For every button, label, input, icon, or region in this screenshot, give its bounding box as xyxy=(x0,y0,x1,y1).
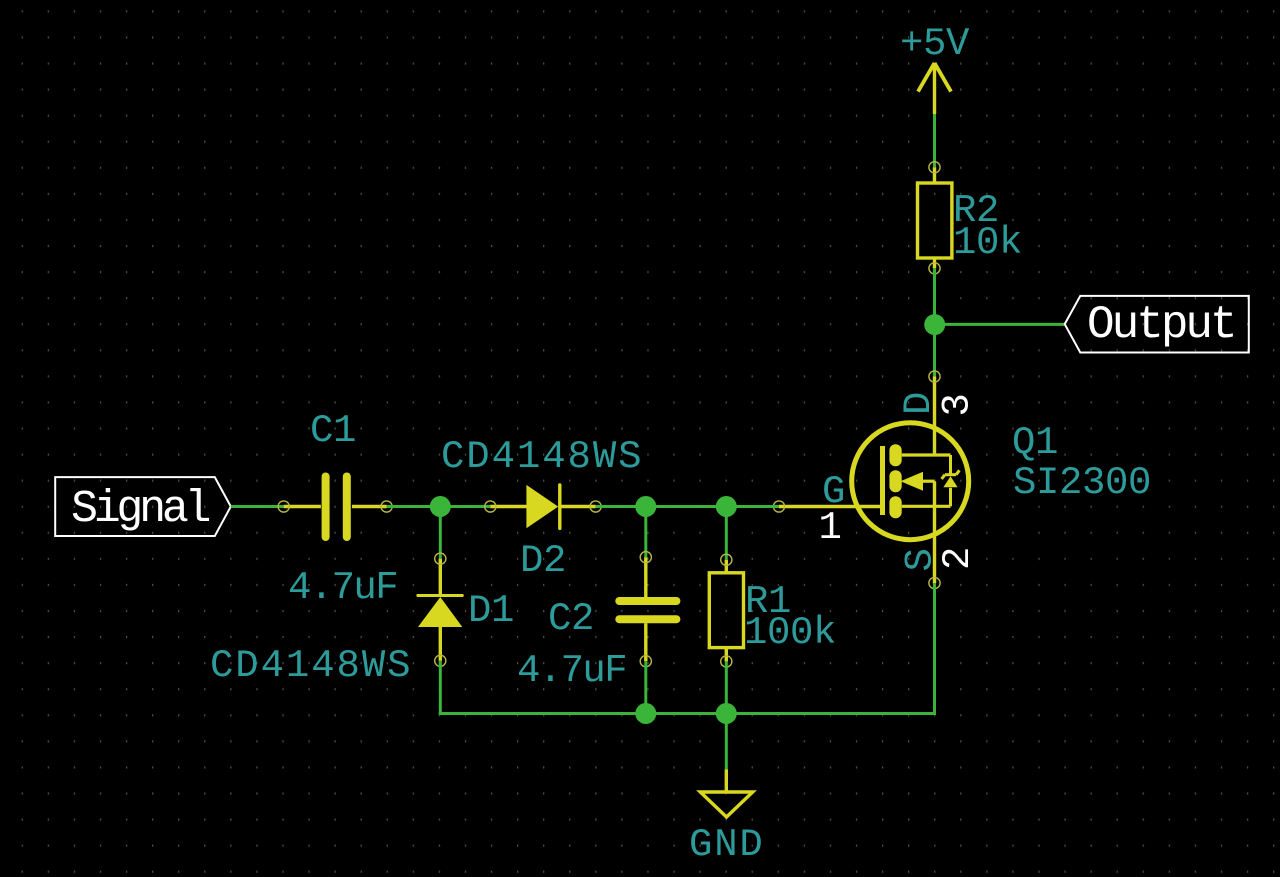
capacitor C1 xyxy=(278,477,392,538)
svg-text:GND: GND xyxy=(689,823,765,867)
Q1 gate electrode bar xyxy=(880,446,885,515)
svg-text:Signal: Signal xyxy=(71,484,210,535)
svg-text:C2: C2 xyxy=(548,597,594,641)
Q1 source internal link xyxy=(902,505,951,508)
svg-text:CD4148WS: CD4148WS xyxy=(210,644,412,688)
wire Q1 source to bottom rail xyxy=(933,583,936,715)
wire D1 anode to bottom rail xyxy=(439,661,442,715)
svg-text:Q1: Q1 xyxy=(1012,421,1058,465)
svg-text:4.7uF: 4.7uF xyxy=(288,566,397,610)
diode D1 xyxy=(418,553,463,666)
drain pin of Q1 xyxy=(933,377,936,456)
resistor R1 xyxy=(709,554,743,667)
svg-text:SI2300: SI2300 xyxy=(1013,461,1151,505)
svg-text:2: 2 xyxy=(936,548,980,570)
capacitor C2 xyxy=(619,552,676,667)
wire from +5V to R2 pin 1 xyxy=(933,114,936,167)
svg-text:D: D xyxy=(897,392,941,415)
svg-text:CD4148WS: CD4148WS xyxy=(441,435,643,479)
wire C1 pin 2 to junction xyxy=(387,505,441,508)
global label Signal xyxy=(55,477,231,536)
svg-text:+5V: +5V xyxy=(900,22,970,66)
wire junction down to D1 cathode xyxy=(439,507,442,559)
wire R1 to bottom rail xyxy=(725,661,728,713)
wire C2 to bottom rail xyxy=(644,661,647,713)
global label Output xyxy=(1065,296,1249,353)
Q1 body circle xyxy=(852,423,969,540)
wire Signal to C1 pin 1 xyxy=(231,505,284,508)
wire R2 pin 2 to Q1 drain xyxy=(933,268,936,376)
wire junction to D2 anode xyxy=(440,505,490,508)
Q1 channel bars xyxy=(889,444,901,466)
svg-text:C1: C1 xyxy=(310,409,356,453)
junction at R1 node xyxy=(716,496,737,517)
Q1 substrate arrow xyxy=(923,480,935,483)
diode D2 xyxy=(485,485,602,529)
junction at C2 node xyxy=(635,496,656,517)
junction rail R1/GND xyxy=(716,703,737,724)
svg-text:4.7uF: 4.7uF xyxy=(517,649,626,693)
junction at D1 node xyxy=(430,496,451,517)
Q1 body diode xyxy=(942,455,960,506)
resistor R2 xyxy=(918,162,952,274)
junction rail C2 xyxy=(635,703,656,724)
svg-text:Output: Output xyxy=(1087,299,1235,351)
power symbol +5V xyxy=(918,63,951,114)
wire junction to Output label xyxy=(935,323,1065,326)
svg-text:D2: D2 xyxy=(520,539,566,583)
Q1 drain internal link xyxy=(902,453,951,456)
svg-text:D1: D1 xyxy=(468,589,514,633)
svg-text:1: 1 xyxy=(819,506,841,550)
ground symbol GND xyxy=(700,714,752,818)
svg-text:100k: 100k xyxy=(744,611,836,655)
svg-text:10k: 10k xyxy=(953,221,1022,265)
gate pin of Q1 xyxy=(779,505,884,508)
bottom rail wire xyxy=(439,712,936,715)
junction output node xyxy=(924,314,945,335)
svg-text:3: 3 xyxy=(936,394,980,416)
source pin of Q1 xyxy=(933,481,936,583)
transistor Q1 MOSFET xyxy=(773,371,968,589)
wire D2 cathode to gate node xyxy=(596,505,779,508)
wire C2 node down xyxy=(644,507,647,558)
wire R1 node down xyxy=(725,507,728,560)
